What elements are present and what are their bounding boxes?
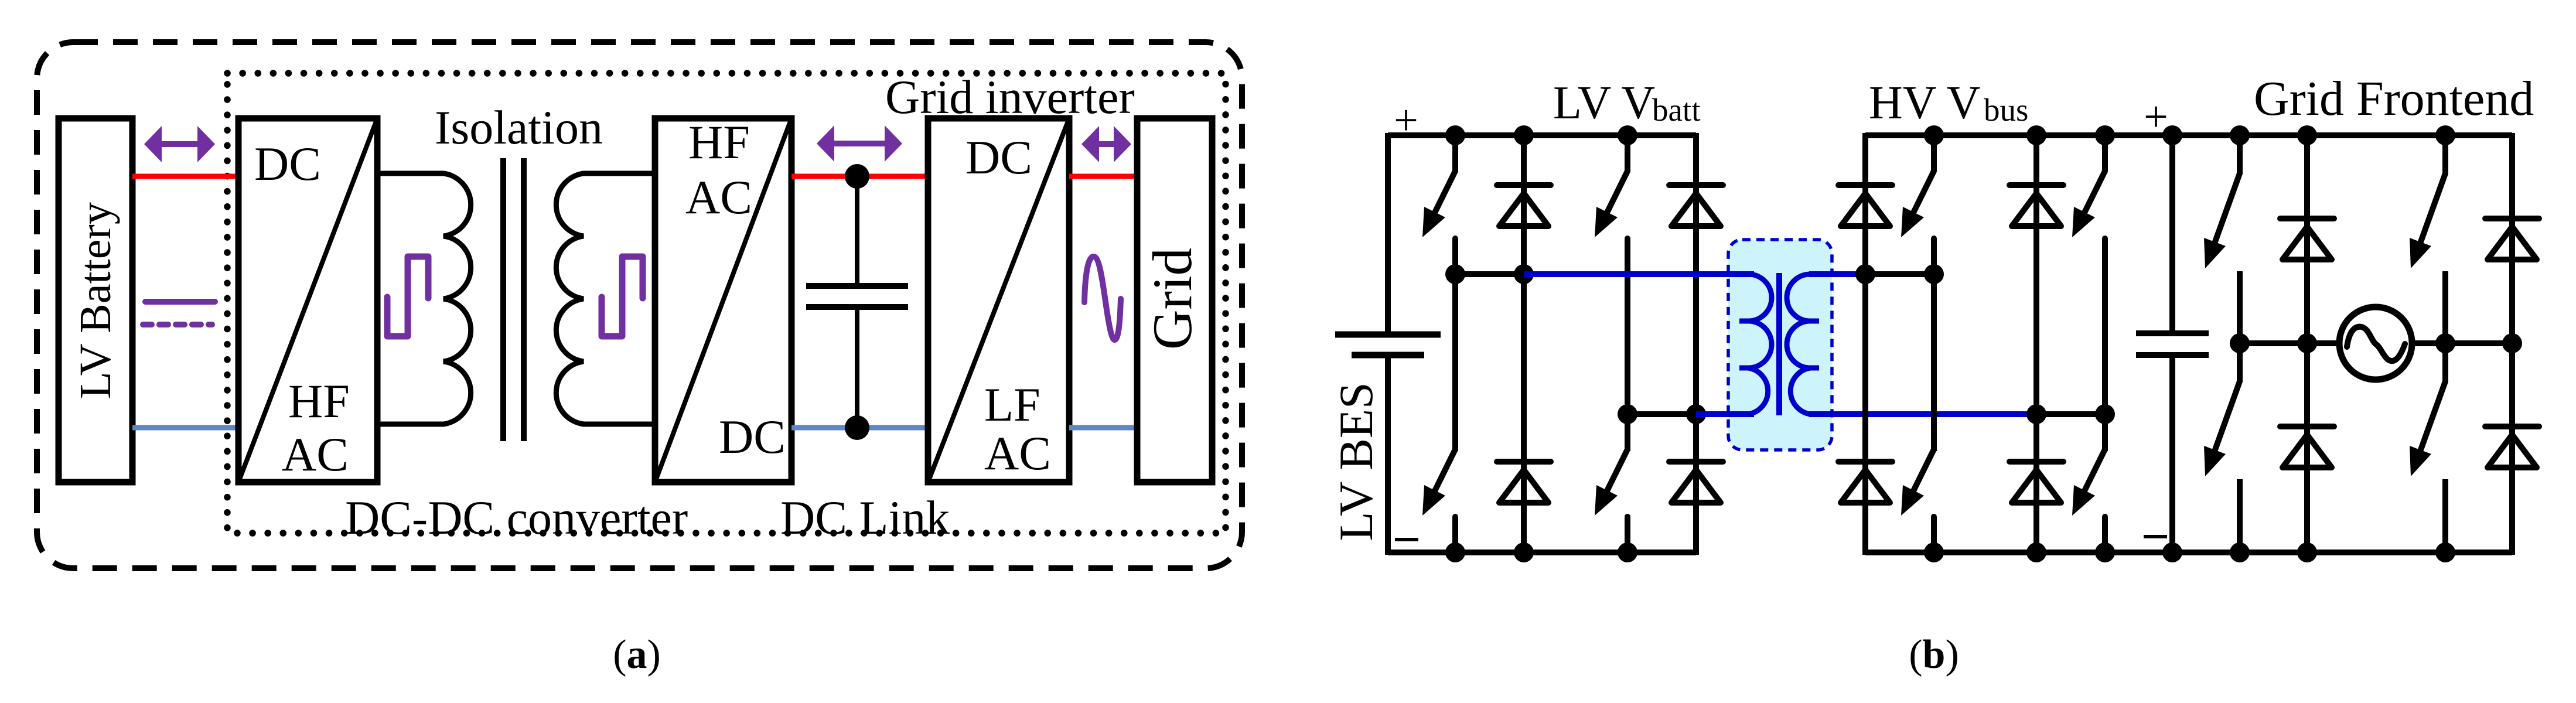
figure a outer dashed system boundary box	[37, 42, 1242, 568]
wire HV leg A midpoint	[1865, 271, 1934, 277]
bidirectional power flow arrow battery-converter	[144, 126, 215, 162]
switch Q8 HV leg B bottom	[2102, 414, 2108, 449]
minus terminal LV	[1395, 538, 1418, 541]
node LV leg A mid switch	[1445, 264, 1465, 284]
switch Q3 LV leg B top	[1625, 135, 1630, 171]
svg-text:Isolation: Isolation	[435, 101, 603, 154]
switch Q5 HV leg A top	[1931, 135, 1937, 171]
switch Q10 GF leg A bottom	[2237, 343, 2243, 381]
svg-text:LV Battery: LV Battery	[71, 202, 120, 399]
node HV leg A mid diode	[1855, 264, 1875, 284]
AC source V1 sine symbol	[2347, 327, 2405, 361]
svg-text:Grid Frontend: Grid Frontend	[2254, 71, 2534, 126]
node C2 bottom rail	[2162, 542, 2182, 562]
svg-text:AC: AC	[282, 428, 349, 481]
battery LV BES plates	[1335, 332, 1441, 338]
wire HV leg B switch lower	[2102, 274, 2108, 451]
converter U2 HF AC to DC box	[655, 118, 791, 482]
node GF Q9 rail	[2230, 125, 2250, 145]
LV bridge top rail	[1388, 132, 1696, 138]
transformer T1 secondary winding	[556, 173, 655, 424]
wire blue U3 to grid	[1069, 425, 1137, 431]
bidirectional power flow arrow U2-U3	[817, 125, 902, 162]
Grid box	[1137, 118, 1212, 482]
LV Battery box	[59, 118, 132, 482]
wire red U3 to grid	[1069, 174, 1137, 179]
diode D3 LV leg B top	[1669, 182, 1723, 188]
switch Q6 HV leg A bottom	[1931, 414, 1937, 449]
HV bridge bottom rail	[1865, 550, 2512, 555]
svg-text:+: +	[1394, 97, 1418, 145]
diode D1 LV leg A top	[1497, 182, 1551, 188]
node LV Q3 rail	[1618, 125, 1637, 145]
svg-text:+: +	[2144, 93, 2168, 141]
node GF leg A mid diode	[2297, 333, 2317, 353]
diode D2 LV leg A bottom	[1497, 459, 1551, 465]
HF square-wave symbol primary side	[387, 257, 428, 336]
diode leg LV A wire	[1521, 135, 1527, 552]
svg-text:LF: LF	[984, 378, 1040, 431]
node LV leg B mid switch	[1618, 404, 1637, 424]
sine waveform symbol grid side	[1084, 257, 1121, 340]
capacitor C2 plates	[2136, 330, 2209, 336]
switch Q9 GF leg A top	[2237, 135, 2243, 173]
wire LV leg B switch lower	[1625, 274, 1630, 451]
switch Q12 GF leg B bottom	[2442, 343, 2448, 381]
svg-text:DC: DC	[719, 410, 786, 463]
HF square-wave symbol secondary side	[602, 257, 643, 336]
diode D6 HV leg A bottom	[1838, 459, 1892, 465]
wire HV leg B midpoint	[2036, 411, 2105, 417]
DC waveform symbol dashed line	[143, 322, 212, 327]
converter U1 diagonal	[238, 118, 377, 482]
svg-text:HV V: HV V	[1869, 77, 1980, 129]
wire GF mid right	[2412, 340, 2512, 346]
switch Q7 HV leg B top	[2102, 135, 2108, 171]
converter U2 diagonal	[655, 118, 791, 482]
converter U1 DC to HF AC box	[238, 118, 377, 482]
diode leg GF B wire	[2509, 133, 2515, 555]
node GF leg B mid diode	[2502, 333, 2522, 353]
bidirectional power flow arrow U3-grid	[1081, 126, 1131, 162]
node HV Q5 rail	[1924, 125, 1944, 145]
svg-text:Grid: Grid	[1141, 248, 1203, 350]
DC waveform symbol solid line	[145, 299, 215, 305]
diode D12 GF leg B bottom	[2485, 424, 2539, 429]
node GF Q12 rail	[2435, 542, 2455, 562]
node GF Q10 rail	[2230, 542, 2250, 562]
AC source V1 grid circle	[2339, 307, 2412, 380]
node HV D8 rail	[2026, 542, 2046, 562]
svg-text:DC: DC	[254, 137, 321, 190]
wire red DC link top	[791, 174, 928, 179]
svg-text:LV BES: LV BES	[1329, 382, 1383, 541]
svg-text:bus: bus	[1984, 92, 2028, 128]
svg-text:HF: HF	[288, 374, 350, 428]
svg-text:AC: AC	[685, 170, 752, 224]
svg-text:DC: DC	[965, 131, 1032, 184]
transformer T2 secondary winding	[1787, 274, 1810, 414]
node GF D9 rail	[2297, 125, 2317, 145]
figure a inner dotted converter boundary box	[227, 73, 1226, 533]
svg-text:batt: batt	[1652, 92, 1700, 128]
converter U3 DC to LF AC box	[928, 118, 1069, 482]
node LV D1 rail	[1514, 125, 1534, 145]
switch Q2 LV leg A bottom	[1452, 414, 1458, 449]
wire blue transformer to HV leg B	[1809, 411, 2036, 417]
diode leg GF A wire	[2304, 135, 2310, 552]
wire blue LV leg A to transformer	[1524, 271, 1754, 277]
svg-text:HF: HF	[688, 115, 750, 169]
transformer T1 core	[500, 158, 506, 441]
wire blue transformer to HV leg A	[1809, 271, 1865, 277]
switch Q4 LV leg B bottom	[1625, 414, 1630, 449]
transformer T2 core	[1776, 273, 1782, 415]
node HV leg B mid switch	[2095, 404, 2115, 424]
battery LV BES wires	[1385, 133, 1391, 335]
wire blue battery to DC-HFAC converter	[132, 425, 238, 431]
node HV leg A mid switch	[1924, 264, 1944, 284]
svg-text:(a): (a)	[613, 632, 661, 677]
node DC link top junction	[845, 164, 869, 189]
node GF leg B mid switch	[2435, 333, 2455, 353]
diode leg HV A wire	[1862, 133, 1868, 555]
node HV Q8 rail	[2095, 542, 2115, 562]
diode D9 GF leg A top	[2280, 216, 2334, 221]
capacitor C1 DC link	[855, 176, 859, 286]
transformer T2 primary winding	[1748, 274, 1772, 414]
diode D7 HV leg B top	[2009, 182, 2063, 188]
wire HV leg A switch lower	[1931, 274, 1937, 451]
wire LV leg A midpoint	[1455, 271, 1524, 277]
LV bridge bottom rail	[1388, 550, 1696, 555]
wire blue DC link bottom	[791, 425, 928, 431]
svg-text:(b): (b)	[1909, 632, 1959, 677]
node LV D2 rail	[1514, 542, 1534, 562]
transformer T1 primary winding	[377, 173, 471, 424]
node HV Q6 rail	[1924, 542, 1944, 562]
node C2 top rail	[2162, 125, 2182, 145]
diode D5 HV leg A top	[1838, 182, 1892, 188]
svg-text:DC-DC converter: DC-DC converter	[345, 491, 688, 544]
minus terminal DC bus	[2144, 535, 2167, 538]
node HV Q7 rail	[2095, 125, 2115, 145]
switch Q11 GF leg B top	[2442, 135, 2448, 173]
node LV Q2 rail	[1445, 542, 1465, 562]
diode D8 HV leg B bottom	[2009, 459, 2063, 465]
wire LV leg B midpoint	[1628, 411, 1696, 417]
diode leg HV B wire	[2033, 135, 2039, 552]
converter U3 diagonal	[928, 118, 1069, 482]
node GF leg A mid switch	[2230, 333, 2250, 353]
diode D4 LV leg B bottom	[1669, 459, 1723, 465]
HV bridge top rail	[1865, 132, 2512, 138]
node HV D7 rail	[2026, 125, 2046, 145]
wire GF mid left	[2240, 340, 2339, 346]
svg-text:AC: AC	[984, 426, 1051, 480]
switch Q1 LV leg A top	[1452, 135, 1458, 171]
diode D11 GF leg B top	[2485, 216, 2539, 221]
svg-text:DC Link: DC Link	[780, 491, 950, 544]
wire LV leg A switch lower	[1452, 274, 1458, 451]
node LV Q1 rail	[1445, 125, 1465, 145]
node LV Q4 rail	[1618, 542, 1637, 562]
svg-text:LV V: LV V	[1553, 77, 1655, 129]
node GF Q11 rail	[2435, 125, 2455, 145]
wire red battery to DC-HFAC converter	[132, 174, 238, 179]
transformer T2 shaded box	[1728, 240, 1832, 450]
capacitor C2 DC bus wires	[2169, 135, 2175, 333]
diode leg LV B wire	[1693, 133, 1699, 555]
node HV leg B mid diode	[2026, 404, 2046, 424]
node LV leg B mid diode	[1686, 404, 1706, 424]
node DC link bottom junction	[845, 415, 869, 440]
node LV leg A mid diode	[1514, 264, 1534, 284]
wire blue LV leg B to transformer	[1696, 411, 1754, 417]
node GF D10 rail	[2297, 542, 2317, 562]
diode D10 GF leg A bottom	[2280, 424, 2334, 429]
